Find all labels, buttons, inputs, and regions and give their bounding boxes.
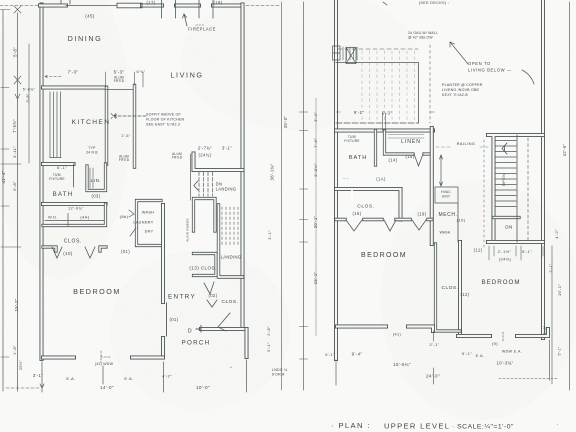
svg-text:(8b): (8b) [120, 214, 129, 219]
svg-text:7'-3": 7'-3" [68, 70, 79, 75]
svg-text:~·~: ~·~ [343, 177, 349, 181]
svg-text:2'-1": 2'-1" [430, 342, 440, 347]
plan1 left dim ticks [0, 6, 21, 357]
svg-text:CLOS.: CLOS. [222, 299, 239, 305]
plan2 hall railing dashed [429, 45, 431, 123]
svg-text:· PLAN :: · PLAN : [331, 421, 371, 430]
svg-text:(02): (02) [208, 293, 217, 298]
svg-text:5'-3": 5'-3" [382, 111, 392, 116]
plan2 stair treads [496, 141, 517, 207]
svg-text:FR'ED: FR'ED [114, 79, 125, 83]
plan2 left dim line [303, 2, 305, 390]
wall: plan2 stair bottom wall [488, 240, 543, 244]
svg-text:5'-1": 5'-1" [558, 346, 562, 355]
wall: plan1 kitchen right wall [105, 88, 108, 165]
svg-text:UPPER LEVEL: UPPER LEVEL [384, 422, 450, 431]
svg-text:6'-1": 6'-1" [57, 165, 67, 170]
svg-text:LINEN: LINEN [401, 139, 421, 145]
plan2 open area bottom line [336, 122, 419, 124]
svg-text:(19): (19) [417, 212, 426, 217]
svg-text:^: ^ [230, 365, 232, 370]
svg-text:9'-4": 9'-4" [352, 352, 363, 357]
plan1 bottom dim line dashes [6, 387, 40, 389]
svg-text:2'-1": 2'-1" [549, 263, 553, 272]
svg-text:(19): (19) [213, 0, 222, 5]
svg-text:10'-0": 10'-0" [196, 385, 210, 390]
plan1 top dim extension [0, 5, 40, 7]
plan2 right dim line outer [569, 2, 571, 390]
plan1 bottom dim mid [103, 360, 247, 392]
svg-text:CLOS.: CLOS. [442, 285, 459, 291]
wall: plan2 stair shaft bottom [494, 216, 520, 219]
svg-text:(13) CLOS.: (13) CLOS. [189, 266, 216, 271]
svg-text:WDW E.A.: WDW E.A. [502, 350, 522, 354]
svg-text:BEDROOM: BEDROOM [73, 287, 121, 296]
svg-text:9'-1": 9'-1" [354, 110, 364, 115]
svg-text:5'-1": 5'-1" [325, 353, 335, 357]
plan2 inner dim line [315, 98, 317, 336]
wall: plan1 bedroom bottom wall [43, 356, 163, 360]
plan2 dim ticks top [336, 112, 434, 131]
svg-text:(11): (11) [474, 248, 483, 253]
svg-text:(16): (16) [352, 211, 361, 216]
svg-text:(15): (15) [405, 154, 414, 159]
plan2 open area solid line [336, 63, 419, 124]
plan2 stair rail dashed [527, 138, 529, 240]
svg-text:SEE EAST 'E'/A2.3: SEE EAST 'E'/A2.3 [146, 123, 180, 127]
svg-text:CLOS.: CLOS. [357, 204, 374, 210]
plan1 clos02 door [218, 313, 230, 331]
svg-text:FR'ED: FR'ED [119, 158, 130, 162]
wall: plan1 landing right wall [219, 205, 243, 277]
svg-text:DN: DN [505, 225, 512, 230]
svg-text:DRY: DRY [145, 230, 154, 234]
svg-text:15'-6¾": 15'-6¾" [393, 362, 411, 367]
svg-text:(10): (10) [457, 218, 466, 223]
svg-text:24 R.B: 24 R.B [86, 151, 98, 155]
plan1 kitchen counter bottom [50, 157, 61, 159]
svg-text:LNDG ¾: LNDG ¾ [272, 368, 288, 372]
svg-text:D: D [188, 329, 192, 335]
plan1 dining window box [117, 3, 142, 8]
svg-text:(10): (10) [63, 251, 73, 256]
svg-text:ENTRY: ENTRY [168, 294, 196, 301]
wall: plan1 dining-kitchen wall [43, 86, 106, 90]
svg-text:(12): (12) [460, 292, 469, 297]
svg-text:(03): (03) [91, 194, 100, 199]
svg-text:5'-1": 5'-1" [266, 342, 271, 352]
wall: plan1 top wall [40, 4, 243, 8]
svg-text:5'-3": 5'-3" [114, 70, 125, 75]
svg-text:(4A): (4A) [80, 215, 89, 220]
svg-text:LAUNDRY: LAUNDRY [133, 221, 153, 225]
svg-text:E.A.: E.A. [476, 354, 485, 358]
svg-text:15'-2": 15'-2" [14, 298, 19, 311]
svg-text:LIVING: LIVING [170, 71, 203, 80]
svg-text:RAILING: RAILING [457, 141, 476, 146]
svg-text:LIVENG /NOVB OBE: LIVENG /NOVB OBE [442, 88, 480, 92]
svg-text:3'-11": 3'-11" [12, 146, 17, 158]
plan1 bottom window marks [101, 351, 110, 363]
plan1 kitchen note arrow [111, 114, 146, 119]
svg-text:20'-1": 20'-1" [313, 216, 318, 229]
svg-text:LANDING: LANDING [221, 255, 242, 260]
svg-text:25½": 25½" [19, 360, 23, 370]
svg-text:(41) WDW: (41) WDW [95, 362, 114, 366]
plan2 open-below pointer [522, 70, 534, 84]
svg-text:5'-1": 5'-1" [522, 249, 532, 254]
wall: plan2 bedroom2 bottom wall [458, 329, 548, 336]
svg-text:12'-0¾": 12'-0¾" [68, 207, 84, 211]
wall: plan1 porch top wall [201, 327, 245, 331]
wall: plan1 left outer wall [40, 5, 44, 360]
plan1 entry closet door [204, 282, 214, 294]
wall: plan2 bath top wall A [336, 129, 433, 133]
plan1 wd inner line [45, 214, 104, 226]
plan2 bottom dim lines [336, 331, 550, 385]
plan2 left wall window [333, 46, 341, 60]
plan2 seedecks arrow [383, 2, 387, 5]
svg-text:2'-1½": 2'-1½" [498, 249, 512, 254]
svg-text:(24¾): (24¾) [199, 153, 212, 158]
svg-text:OPEN: OPEN [501, 174, 506, 187]
wall: plan2 closet row wall [336, 218, 432, 221]
svg-text:36'-1¾": 36'-1¾" [270, 163, 275, 180]
svg-text:@ 42" BELOW: @ 42" BELOW [408, 36, 433, 40]
wall: plan1 stair lower walls [194, 199, 216, 232]
svg-text:UNIT: UNIT [442, 195, 451, 199]
plan2 right dim line inner [551, 246, 553, 384]
svg-text:WASH: WASH [142, 211, 154, 215]
plan2 chimney box [346, 48, 356, 64]
svg-text:4'-2": 4'-2" [554, 229, 559, 239]
plan1 landing hatch [222, 207, 238, 246]
plan1 bottom dim left [40, 362, 44, 392]
wall: plan1 stair top wall [194, 154, 243, 171]
wall: plan2 bedroom1 bottom wall [337, 327, 433, 332]
svg-text:(SEE DECKS) :: (SEE DECKS) : [419, 1, 449, 5]
plan2 hvac box [435, 187, 458, 203]
plan1 left dim line inner [17, 13, 19, 391]
svg-text:2'-8": 2'-8" [543, 325, 547, 334]
wall: plan2 closet strip wall [436, 244, 461, 331]
svg-text:TYP: TYP [88, 146, 96, 150]
plan2 open area top dotted [338, 48, 418, 50]
svg-text:FR'ED: FR'ED [172, 156, 183, 160]
wall: plan1 porch right wall [245, 329, 249, 357]
svg-text:LIVING BELOW —: LIVING BELOW — [468, 68, 512, 73]
svg-text:FLOOR OF KITCHEN: FLOOR OF KITCHEN [146, 118, 185, 122]
svg-text:LANDING: LANDING [216, 187, 237, 192]
svg-text:SOFFIT ABOVE OF: SOFFIT ABOVE OF [146, 113, 181, 117]
plan1 top wall dashes right [246, 5, 280, 7]
wall: plan1 laundry closet walls [137, 201, 162, 246]
wall: plan1 right outer wall [241, 5, 245, 329]
svg-text:CLOS.: CLOS. [64, 239, 83, 245]
plan1 linen inner lines [90, 168, 93, 188]
plan1 left dim line outer [2, 10, 4, 391]
plan2 railing dashed [436, 146, 488, 148]
plan1 entry door01 line [166, 303, 168, 336]
wall: plan1 closet10 bottom wall [43, 247, 106, 251]
plan2 linen inner shelf [388, 135, 424, 139]
wall: plan2 stair top wall [488, 135, 543, 242]
svg-text:42'-6": 42'-6" [562, 144, 567, 157]
svg-text:OPEN TO: OPEN TO [468, 61, 491, 66]
svg-text:FIREPLACE: FIREPLACE [188, 27, 216, 32]
svg-text:BATH: BATH [349, 155, 368, 161]
svg-text:(1A): (1A) [376, 177, 386, 182]
wall: plan2 hall long wall [430, 128, 434, 244]
svg-text:10'-3¾": 10'-3¾" [497, 361, 514, 366]
wall: plan2 bath-linen divider [374, 131, 377, 166]
svg-text:3'-1": 3'-1" [267, 230, 272, 240]
wall: plan1 entry wall [161, 205, 165, 357]
svg-text:4'-2": 4'-2" [162, 374, 172, 379]
svg-text:BEDROOM: BEDROOM [361, 252, 407, 259]
svg-text:(41): (41) [393, 333, 402, 337]
svg-text:2'-8": 2'-8" [266, 326, 271, 336]
svg-text:(14): (14) [388, 158, 397, 163]
plan1 gap dim line [281, 2, 283, 390]
svg-text:3'-1": 3'-1" [222, 146, 232, 151]
plan2 bottom dotted [499, 378, 558, 380]
plan1 bedroom closet doors [52, 247, 95, 258]
wall: plan1 wd closet walls [43, 204, 106, 226]
svg-text:14'-0": 14'-0" [100, 385, 114, 390]
wall: plan1 linen closet walls [87, 164, 106, 191]
svg-text:15'-1": 15'-1" [313, 272, 318, 285]
svg-text:5'-8¾": 5'-8¾" [23, 88, 36, 92]
svg-text:6'¾": 6'¾" [137, 70, 146, 74]
svg-text:2'-6": 2'-6" [122, 134, 131, 138]
svg-text:(45): (45) [85, 14, 95, 19]
plan2 hvac dim arrow [440, 155, 443, 186]
plan1 stair arrow [194, 181, 198, 190]
svg-text:6'OR A': 6'OR A' [272, 373, 285, 377]
svg-text:(9): (9) [492, 341, 498, 346]
svg-text:(01): (01) [121, 249, 130, 254]
plan2 stair arrow [502, 143, 507, 154]
plan1 stair jamb ticks [190, 154, 192, 200]
svg-text:HVAC: HVAC [441, 190, 451, 194]
plan1 kitchen inner dim line [28, 44, 30, 163]
plan1 kitchen slider sill [106, 89, 134, 91]
svg-text:· SCALE:¼"=1'-0": · SCALE:¼"=1'-0" [452, 424, 514, 431]
svg-text:24 GAU W/ WALL: 24 GAU W/ WALL [408, 31, 438, 35]
svg-text:W.D.: W.D. [48, 216, 58, 220]
svg-text:KITCHEN: KITCHEN [72, 119, 111, 126]
plan1 dim leader dash [45, 75, 63, 79]
plan2 dim ticks mid [489, 246, 543, 260]
plan2 wdw mark bottom [502, 332, 504, 341]
plan1 kitchen dim ticks [106, 72, 144, 87]
plan1 porch door D [196, 326, 201, 333]
wall: plan2 right outer wall [541, 0, 545, 338]
plan1 dining window sill [66, 5, 117, 7]
svg-text:3'-1": 3'-1" [33, 373, 43, 378]
plan1 fireplace dots [196, 24, 205, 26]
svg-text:(17): (17) [146, 0, 155, 5]
plan2 left dim ticks [300, 112, 308, 359]
svg-text:7'-6¾": 7'-6¾" [12, 119, 17, 133]
svg-text:MECH.: MECH. [438, 212, 457, 218]
plan2 stair dim dotted [483, 140, 485, 250]
wall: plan2 bath bottom wall [336, 189, 401, 220]
wall: plan1 bath top wall [43, 162, 74, 166]
plan1 laundry door marks [129, 210, 136, 236]
plan2 corner window ticks [343, 47, 357, 60]
plan2 mech wall stub [457, 203, 459, 242]
svg-text:FIXTURE: FIXTURE [49, 177, 65, 181]
plan2 stair inner right [516, 135, 518, 242]
svg-text:(24½): (24½) [499, 257, 512, 262]
svg-text:FIXTURE: FIXTURE [344, 139, 360, 143]
wall: plan1 bath bottom wall [43, 202, 106, 206]
svg-text:2'-8": 2'-8" [12, 345, 17, 355]
svg-text:7'-6": 7'-6" [313, 138, 318, 148]
svg-text:ALIGN RISERS: ALIGN RISERS [186, 218, 190, 241]
plan1 bath door jamb [73, 164, 75, 187]
svg-text:·: · [557, 422, 559, 428]
wall: plan2 linen closet walls [385, 131, 432, 154]
svg-text:5'-8¾": 5'-8¾" [313, 163, 318, 176]
svg-text:35'-0": 35'-0" [283, 116, 288, 129]
plan1 fireplace arrow [183, 14, 188, 26]
svg-text:KEXT 'E:/A2.B: KEXT 'E:/A2.B [442, 93, 468, 97]
plan2 open area hatch [362, 51, 415, 121]
svg-text:3'-8": 3'-8" [26, 93, 30, 102]
plan2 clos19 door [412, 220, 426, 230]
svg-text:WASH: WASH [440, 231, 451, 235]
svg-text:24'-0": 24'-0" [426, 374, 440, 379]
svg-text:DINING: DINING [68, 34, 103, 43]
plan2 open-below arrow [450, 42, 468, 64]
plan2 linen door V [414, 154, 423, 166]
svg-text:PLANTER @ COPPER: PLANTER @ COPPER [442, 83, 483, 87]
svg-text:16'-1": 16'-1" [557, 284, 562, 296]
svg-text:41'-4": 41'-4" [1, 170, 6, 183]
wall: plan2 left outer wall [334, 0, 338, 359]
svg-text:LIN.: LIN. [91, 178, 101, 183]
wall: plan2 bedroom2 left wall [458, 242, 462, 336]
svg-text:6'-8": 6'-8" [12, 181, 17, 191]
plan1 stair updown arrow [207, 300, 217, 307]
plan2 bath door jamb [351, 189, 353, 200]
svg-text:3'-4": 3'-4" [313, 112, 318, 122]
wall: plan1 hall wall [133, 86, 136, 168]
svg-text:E.A.: E.A. [66, 376, 75, 381]
svg-text:5'-8": 5'-8" [13, 47, 18, 57]
svg-text:(01): (01) [169, 317, 178, 322]
plan2 closet doors [346, 220, 396, 231]
svg-text:5'-1": 5'-1" [462, 351, 472, 356]
wall: plan1 closet13 walls [194, 254, 217, 276]
svg-text:2'-7¾": 2'-7¾" [198, 146, 212, 151]
plan1 kitchen counter lines [50, 92, 61, 158]
svg-text:BATH: BATH [53, 191, 74, 198]
svg-text:BEDROOM: BEDROOM [482, 279, 521, 286]
svg-text:PORCH: PORCH [182, 340, 211, 347]
plan1 window jamb stubs [61, 0, 213, 18]
svg-text:E.A.: E.A. [124, 376, 133, 381]
plan1 stair treads [199, 172, 213, 196]
